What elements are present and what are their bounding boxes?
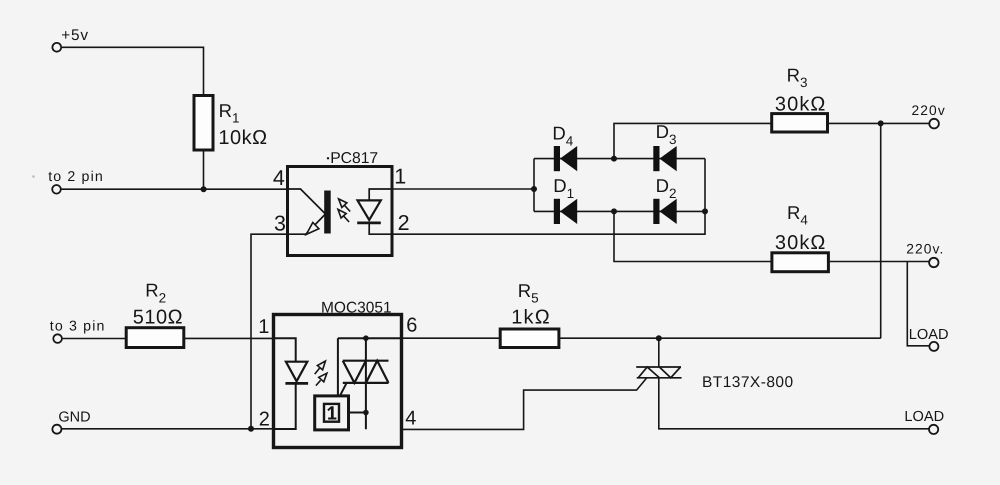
- svg-text:220v: 220v: [912, 103, 946, 118]
- svg-text:510Ω: 510Ω: [133, 307, 183, 329]
- svg-text:1: 1: [394, 165, 406, 189]
- svg-text:3: 3: [274, 211, 286, 235]
- svg-text:LOAD: LOAD: [909, 327, 949, 343]
- svg-text:2: 2: [398, 211, 410, 235]
- svg-text:2: 2: [259, 408, 270, 430]
- svg-text:30kΩ: 30kΩ: [775, 94, 827, 116]
- svg-text:6: 6: [406, 315, 417, 337]
- svg-text:LOAD: LOAD: [904, 409, 944, 425]
- svg-text:1: 1: [258, 316, 269, 338]
- svg-text:1kΩ: 1kΩ: [511, 307, 551, 329]
- svg-text:to 2 pin: to 2 pin: [48, 169, 104, 185]
- svg-text:PC817: PC817: [330, 150, 378, 167]
- svg-text:4: 4: [405, 407, 416, 429]
- svg-text:4: 4: [273, 166, 285, 190]
- svg-text:30kΩ: 30kΩ: [775, 232, 827, 254]
- svg-text:+5v: +5v: [61, 27, 89, 44]
- svg-text:MOC3051: MOC3051: [321, 299, 392, 316]
- svg-text:BT137X-800: BT137X-800: [702, 374, 794, 391]
- svg-text:10kΩ: 10kΩ: [218, 127, 267, 149]
- svg-text:220v.: 220v.: [906, 242, 944, 257]
- svg-text:to 3 pin: to 3 pin: [50, 318, 106, 334]
- svg-text:GND: GND: [58, 410, 90, 426]
